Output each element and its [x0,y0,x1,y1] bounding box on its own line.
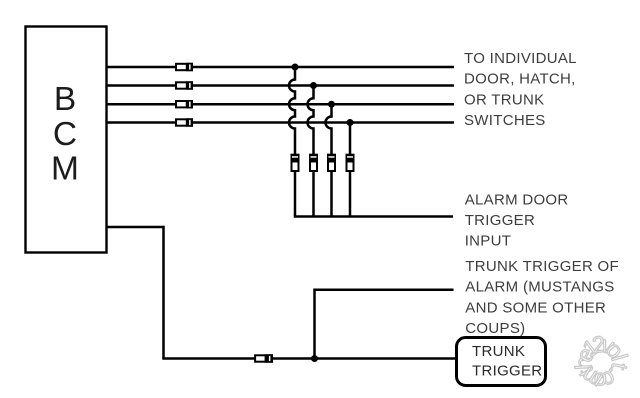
wire: BCM pin to switches, line 4 [107,121,454,124]
wire: BCM output to trunk circuit (horizontal from BCM) [107,226,164,229]
wire: BCM pin to switches, line 2 [107,84,454,87]
svg-text:ALARM DOOR: ALARM DOOR [465,191,569,208]
diode D6 (vertical, cathode band up) on drop 2 [309,154,318,171]
TRUNK TRIGGER box [457,338,546,386]
wire: vertical drop 3 (hops over line 4) [326,104,332,154]
node: junction dot on line 4 [347,119,354,126]
diode D7 (vertical, cathode band up) on drop 3 [327,154,336,171]
node: junction dot on line 1 [292,64,299,71]
svg-text:B: B [54,81,76,118]
wire: vertical drop 4 [349,123,352,155]
node: junction dot on trunk wire [311,355,318,362]
svg-text:TRIGGER: TRIGGER [465,212,535,229]
diode D5 (vertical, cathode band up) on drop 1 [291,154,300,171]
svg-text:TRUNK TRIGGER OF: TRUNK TRIGGER OF [465,258,619,275]
svg-text:TRUNK: TRUNK [472,343,525,360]
wire: BCM pin to switches, line 1 [107,66,454,69]
node: junction dot on line 3 [328,101,335,108]
diode D4 (pictorial body, cathode band right) on line 4 [176,118,193,126]
wire: trunk circuit vertical segment [162,226,165,359]
diode D2 (pictorial body, cathode band right) on line 2 [176,81,193,89]
wire: drop 1 below diode to bus [294,172,297,217]
svg-text:ALARM (MUSTANGS: ALARM (MUSTANGS [465,279,614,296]
diode D8 (vertical, cathode band up) on drop 4 [346,154,355,171]
svg-text:AND SOME OTHER: AND SOME OTHER [465,299,606,316]
svg-text:DOOR, HATCH,: DOOR, HATCH, [464,71,576,88]
BCM module box U1 [26,27,107,253]
wire: vertical drop 2 (hops over lines 3,4) [308,86,314,155]
wire: drop 2 below diode to bus [312,172,315,217]
wire: trunk circuit bottom horizontal to trunk trigger box [162,357,455,360]
wire: vertical drop 1 (hops over lines 2,3,4) [289,67,295,154]
svg-text:SWITCHES: SWITCHES [464,112,546,129]
wire: drop 3 below diode to bus [330,172,333,217]
svg-text:TO INDIVIDUAL: TO INDIVIDUAL [464,50,577,67]
wire: BCM pin to switches, line 3 [107,103,454,106]
svg-text:INPUT: INPUT [465,233,512,250]
wire: branch up to trunk trigger of alarm [315,290,454,359]
svg-text:C: C [53,116,77,153]
svg-text:OR TRUNK: OR TRUNK [464,91,544,108]
wire: alarm door trigger input bus [294,215,453,218]
diode D1 (pictorial body, cathode band right) on line 1 [176,63,193,71]
watermark: the12volt.com circular logo [0,0,1,1]
wire: drop 4 below diode to bus [349,172,352,217]
diode D3 (pictorial body, cathode band right) on line 3 [176,100,193,108]
svg-text:M: M [51,151,79,188]
node: junction dot on line 2 [310,82,317,89]
svg-text:COUPS): COUPS) [465,320,525,337]
diode D9 (pictorial body, cathode band right) on trunk wire [255,354,273,362]
svg-text:TRIGGER: TRIGGER [472,363,542,380]
